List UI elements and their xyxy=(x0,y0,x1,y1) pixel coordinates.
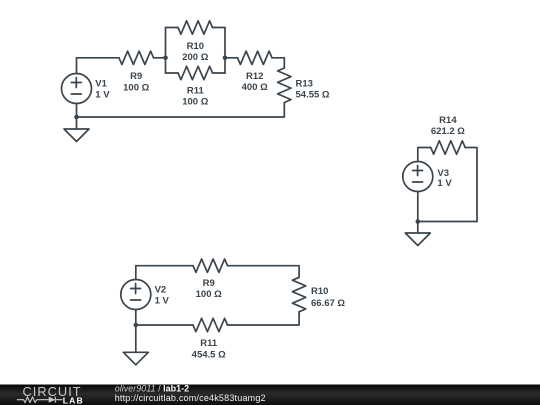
resistor R10 xyxy=(178,21,213,34)
svg-text:R13: R13 xyxy=(296,79,313,90)
wire bottom branch right lead xyxy=(213,72,226,74)
wire V2 top to R9 xyxy=(136,266,193,280)
wire R10 bottom to bottom rail xyxy=(228,312,300,325)
node GND3 junction dot xyxy=(134,323,139,328)
voltage source V1 xyxy=(62,74,92,104)
ground circuit 2 xyxy=(405,233,430,246)
wire R9 to R10 top xyxy=(228,266,300,278)
wire V3 bottom xyxy=(417,192,419,234)
node A junction dot xyxy=(163,56,168,61)
resistor R10 (circuit 3) xyxy=(292,277,305,312)
svg-text:621.2 Ω: 621.2 Ω xyxy=(431,126,465,137)
svg-text:54.55 Ω: 54.55 Ω xyxy=(296,90,330,101)
svg-text:100 Ω: 100 Ω xyxy=(182,97,208,108)
resistor R11 xyxy=(178,66,213,79)
wire V1 bottom xyxy=(76,104,78,130)
wire bottom rail circuit 2 xyxy=(418,221,477,223)
ground circuit 3 xyxy=(123,352,148,365)
svg-text:66.67 Ω: 66.67 Ω xyxy=(311,298,345,309)
resistor R13 xyxy=(278,68,291,103)
svg-text:1 V: 1 V xyxy=(95,90,110,101)
svg-text:R10: R10 xyxy=(187,41,204,52)
svg-text:R9: R9 xyxy=(203,278,215,289)
wire R9 to node A xyxy=(154,57,166,59)
voltage source V2 xyxy=(121,280,151,310)
wire R12 to R13 top xyxy=(272,58,284,68)
svg-text:1 V: 1 V xyxy=(155,296,170,307)
wire V3 top to R14 xyxy=(418,148,431,162)
svg-text:R11: R11 xyxy=(187,85,205,96)
node GND1 junction dot xyxy=(74,115,79,120)
resistor R9 (circuit 3) xyxy=(193,259,228,272)
svg-text:400 Ω: 400 Ω xyxy=(242,82,268,93)
svg-text:100 Ω: 100 Ω xyxy=(196,289,222,300)
svg-text:LAB: LAB xyxy=(63,395,84,405)
svg-text:oliver9011 / lab1-2: oliver9011 / lab1-2 xyxy=(115,383,189,393)
svg-text:454.5 Ω: 454.5 Ω xyxy=(192,350,226,361)
wire R13 bottom to ground rail xyxy=(77,103,285,118)
wire R14 to right vertical xyxy=(465,148,477,222)
wire top branch right lead xyxy=(213,27,226,29)
logo resistor-diode doodle xyxy=(17,397,63,403)
ground circuit 1 xyxy=(64,129,89,142)
node B junction dot xyxy=(223,56,228,61)
resistor R11 (circuit 3) xyxy=(193,318,228,331)
svg-text:R9: R9 xyxy=(130,71,142,82)
wire V2 bottom xyxy=(135,310,137,353)
svg-text:V1: V1 xyxy=(95,78,107,89)
svg-text:200 Ω: 200 Ω xyxy=(182,52,208,63)
svg-text:R12: R12 xyxy=(246,71,263,82)
svg-text:100 Ω: 100 Ω xyxy=(123,82,149,93)
svg-text:http://circuitlab.com/ce4k583t: http://circuitlab.com/ce4k583tuamg2 xyxy=(115,393,266,403)
svg-text:1 V: 1 V xyxy=(437,178,452,189)
wire node B to R12 xyxy=(225,57,238,59)
wire right vertical of parallel pair xyxy=(224,28,226,74)
svg-text:R10: R10 xyxy=(311,286,328,297)
resistor R14 xyxy=(431,141,466,154)
wire top branch left lead xyxy=(166,27,179,29)
svg-text:R14: R14 xyxy=(439,115,457,126)
svg-text:R11: R11 xyxy=(200,338,218,349)
voltage source V3 xyxy=(403,162,433,192)
node GND2 junction dot xyxy=(416,219,421,224)
wire V1 top to R9 xyxy=(77,58,120,74)
svg-text:V2: V2 xyxy=(155,284,167,295)
CircuitLab logo wordmark xyxy=(17,384,84,405)
wire bottom branch left lead xyxy=(166,72,179,74)
resistor R12 xyxy=(238,51,273,64)
wire left vertical of parallel pair xyxy=(165,28,167,74)
wire R11 to V2 bottom node xyxy=(136,324,193,326)
resistor R9 xyxy=(119,51,154,64)
